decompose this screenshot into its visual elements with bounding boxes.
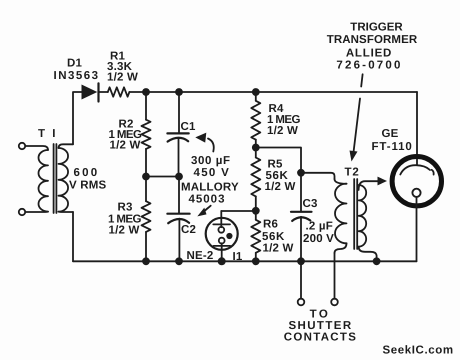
- transformer T2: [335, 167, 379, 262]
- svg-text:726-0700: 726-0700: [336, 60, 402, 72]
- svg-text:1/2 W: 1/2 W: [107, 72, 138, 84]
- label R4 1MEG 1/2W: [267, 103, 300, 137]
- svg-text:C3: C3: [303, 198, 318, 210]
- wire bottom bus: [73, 260, 417, 262]
- svg-text:FT-110: FT-110: [372, 141, 413, 153]
- node bus T2: [373, 257, 381, 265]
- node C3 top: [297, 169, 305, 177]
- node top bus R2: [142, 88, 150, 96]
- svg-text:NE-2: NE-2: [187, 250, 214, 262]
- wire mid R2-C1: [146, 176, 179, 178]
- svg-text:1/2 W: 1/2 W: [265, 181, 296, 193]
- svg-text:IN3563: IN3563: [54, 70, 100, 82]
- node mid C1: [175, 173, 183, 181]
- capacitor C2: [167, 177, 189, 262]
- node mid R2: [142, 173, 150, 181]
- svg-text:C2: C2: [181, 224, 196, 236]
- svg-text:SHUTTER: SHUTTER: [288, 320, 352, 332]
- wire diode to R1: [99, 91, 108, 93]
- transformer T1: [19, 128, 73, 215]
- diode D1: [82, 83, 99, 101]
- neon lamp I1: [206, 211, 238, 261]
- label TRIGGER TRANSFORMER ALLIED 726-0700: [327, 22, 418, 72]
- label D1 IN3563: [54, 58, 100, 83]
- node R5 R6: [252, 207, 260, 215]
- capacitor C1: [167, 92, 188, 177]
- wire T1 secondary top to diode: [73, 92, 82, 144]
- svg-text:200 V: 200 V: [303, 233, 334, 245]
- svg-text:GE: GE: [382, 128, 399, 140]
- resistor R1: [108, 87, 130, 96]
- svg-text:MALLORY: MALLORY: [181, 182, 239, 194]
- svg-text:SeekIC.com: SeekIC.com: [383, 345, 454, 357]
- svg-text:600: 600: [74, 167, 100, 179]
- resistor R2: [142, 92, 151, 177]
- node bus C3: [297, 257, 305, 265]
- shutter terminal left: [298, 261, 305, 305]
- svg-text:1/2 W: 1/2 W: [267, 125, 298, 137]
- resistor R3: [142, 177, 151, 262]
- wire T1 secondary bottom to bus: [72, 212, 74, 261]
- flash tube V1: [392, 157, 441, 262]
- label 600 V RMS: [69, 167, 107, 192]
- svg-text:T I: T I: [38, 128, 57, 140]
- svg-text:TO: TO: [310, 309, 331, 321]
- svg-text:1/2 W: 1/2 W: [109, 225, 140, 237]
- shutter terminal right: [331, 253, 338, 305]
- label .2uF 200V: [303, 221, 334, 246]
- label 300uF 450V MALLORY 45003: [181, 155, 239, 206]
- svg-text:C1: C1: [181, 121, 197, 133]
- svg-text:.2 µF: .2 µF: [306, 221, 333, 233]
- arrow T2 to flashtube: [378, 177, 388, 186]
- svg-text:R6: R6: [263, 219, 278, 231]
- label R5 56K 1/2W: [265, 159, 296, 194]
- svg-text:450 V: 450 V: [194, 167, 231, 179]
- svg-text:T2: T2: [345, 167, 360, 179]
- wire C3 node to T2: [301, 173, 335, 179]
- label TO SHUTTER CONTACTS: [284, 309, 357, 344]
- wire right vertical to flashtube: [416, 92, 418, 165]
- svg-text:300 µF: 300 µF: [191, 155, 231, 167]
- label R2 1 MEG 1/2 W: [109, 119, 142, 152]
- node top bus R4: [252, 88, 260, 96]
- arrow to C2: [197, 206, 210, 217]
- svg-text:56K: 56K: [262, 231, 285, 243]
- wire lamp to R5 R6 node: [221, 210, 256, 212]
- svg-text:1/2 W: 1/2 W: [110, 140, 141, 152]
- svg-text:TRIGGER: TRIGGER: [350, 22, 403, 34]
- arrow label to T2: [350, 74, 363, 161]
- svg-text:CONTACTS: CONTACTS: [284, 332, 357, 344]
- svg-text:V RMS: V RMS: [69, 180, 107, 192]
- node bus lamp: [218, 257, 226, 265]
- node R4 R5: [252, 144, 260, 152]
- svg-text:D1: D1: [67, 58, 83, 70]
- wire top bus: [129, 91, 417, 93]
- label R3 1 MEG 1/2 W: [108, 202, 141, 237]
- label R6 56K 1/2W: [262, 219, 294, 255]
- capacitor C3: [291, 173, 312, 261]
- resistor R4: [251, 92, 260, 148]
- arrow to C1: [195, 133, 213, 152]
- svg-text:1/2 W: 1/2 W: [263, 243, 294, 255]
- wire R4R5 node to C3 node: [256, 148, 301, 173]
- node bus R6: [252, 257, 260, 265]
- svg-text:R5: R5: [268, 159, 284, 171]
- resistor R6: [251, 211, 260, 261]
- resistor R5: [251, 148, 260, 211]
- label GE FT-110: [372, 128, 413, 153]
- node bus C2: [175, 257, 183, 265]
- svg-text:TRANSFORMER: TRANSFORMER: [327, 34, 418, 46]
- label R1 3.3K 1/2W: [107, 51, 138, 84]
- svg-text:R3: R3: [118, 202, 133, 214]
- node bus R3: [142, 257, 150, 265]
- svg-text:ALLIED: ALLIED: [346, 48, 392, 60]
- node top bus C1: [175, 88, 183, 96]
- svg-text:45003: 45003: [189, 194, 226, 206]
